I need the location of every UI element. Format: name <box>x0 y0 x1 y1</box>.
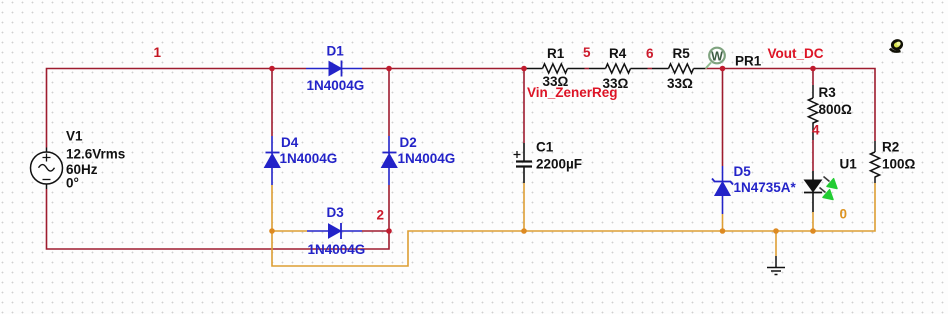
svg-text:1N4735A*: 1N4735A* <box>734 180 797 195</box>
svg-text:U1: U1 <box>840 157 858 172</box>
svg-text:D2: D2 <box>400 135 417 150</box>
wire node 6 stub <box>648 68 653 70</box>
capacitor C1 <box>514 143 533 183</box>
svg-text:4: 4 <box>812 123 820 138</box>
C1 labels <box>536 140 582 172</box>
svg-text:1: 1 <box>154 45 162 60</box>
cursor icon top right <box>890 39 903 51</box>
zener diode D5 <box>712 166 733 214</box>
U1 label <box>840 157 858 172</box>
svg-text:D3: D3 <box>327 205 345 220</box>
wire net 0 D3 anode segment <box>272 230 307 232</box>
D3 labels <box>308 205 366 257</box>
svg-text:PR1: PR1 <box>735 54 762 69</box>
D2 labels <box>398 135 456 166</box>
junction Vin_ZenerReg <box>521 66 527 72</box>
svg-text:5: 5 <box>583 45 591 60</box>
resistor R3 <box>808 85 817 140</box>
svg-text:100Ω: 100Ω <box>882 157 916 172</box>
svg-text:2: 2 <box>377 208 385 223</box>
svg-text:1N4004G: 1N4004G <box>398 151 456 166</box>
svg-text:R4: R4 <box>609 46 627 61</box>
svg-text:2200µF: 2200µF <box>536 157 582 172</box>
U1 emission arrow upper <box>824 177 838 189</box>
R1 labels <box>543 46 569 89</box>
wire net 4 R3 to U1 <box>812 140 814 171</box>
wire net 1 D1 cathode to C1 junction <box>362 68 525 70</box>
wire node 5 stub <box>585 68 590 70</box>
svg-text:Vin_ZenerReg: Vin_ZenerReg <box>527 85 618 100</box>
junction node 0 at D4 <box>269 228 275 234</box>
svg-text:R5: R5 <box>673 46 691 61</box>
svg-text:12.6Vrms: 12.6Vrms <box>66 147 125 162</box>
wire C1 top branch <box>523 69 525 144</box>
junction node 2 <box>386 228 392 234</box>
svg-text:D4: D4 <box>281 135 299 150</box>
svg-text:Vout_DC: Vout_DC <box>768 46 824 61</box>
wire net 0 D5 bottom <box>722 214 724 231</box>
junction node 0 at D5 <box>720 228 726 234</box>
wire D2 top branch <box>388 69 390 137</box>
resistor R2 <box>870 141 879 183</box>
junction node 1 right <box>386 66 392 72</box>
svg-text:0°: 0° <box>66 176 79 191</box>
svg-text:1N4004G: 1N4004G <box>308 242 366 257</box>
svg-text:D1: D1 <box>327 44 345 59</box>
wire D4 top branch <box>271 69 273 137</box>
wire net 0 D4 bottom to ground bus with jog <box>272 183 875 266</box>
resistor R4 <box>589 64 648 73</box>
R3 labels <box>819 85 853 117</box>
D4 labels <box>280 135 338 166</box>
svg-text:6: 6 <box>646 46 654 61</box>
svg-text:V1: V1 <box>66 129 83 144</box>
svg-text:C1: C1 <box>536 140 554 155</box>
junction node 1 left <box>269 66 275 72</box>
R5 labels <box>667 46 693 91</box>
R2 labels <box>882 140 916 172</box>
svg-text:0: 0 <box>840 207 848 222</box>
D1 labels <box>307 44 365 94</box>
diode D1 <box>306 61 362 77</box>
wire net 2 D3 cathode segment <box>362 230 389 232</box>
svg-text:1N4004G: 1N4004G <box>307 78 365 93</box>
diode D4 <box>265 136 281 185</box>
wire net Vout right run to R2 corner <box>705 69 875 142</box>
diode D2 <box>382 136 398 185</box>
resistor R1 <box>525 64 585 73</box>
ground <box>767 256 785 275</box>
svg-text:R2: R2 <box>882 140 899 155</box>
D5 labels <box>734 164 797 195</box>
junction Vout_DC left <box>720 66 726 72</box>
svg-text:33Ω: 33Ω <box>667 76 693 91</box>
V1 labels <box>66 129 125 191</box>
wire D5 top branch <box>722 69 724 167</box>
wire net 0 U1 bottom <box>812 212 814 231</box>
wire net 0 ground stub <box>775 231 777 256</box>
wire top net 1 from V1 to D1 anode <box>47 69 307 148</box>
diode D3 <box>307 223 362 239</box>
U1 emission arrow lower <box>820 188 834 200</box>
LED U1 <box>804 171 822 212</box>
svg-text:800Ω: 800Ω <box>819 102 853 117</box>
junction node 0 at C1 <box>521 228 527 234</box>
R4 labels <box>603 46 629 91</box>
svg-text:R1: R1 <box>547 46 565 61</box>
wire net 0 C1 bottom <box>523 183 525 231</box>
svg-text:D5: D5 <box>734 164 752 179</box>
wire R3 top branch <box>812 69 814 86</box>
svg-text:W: W <box>711 49 723 63</box>
junction node 0 at U1 <box>810 228 816 234</box>
svg-text:1N4004G: 1N4004G <box>280 151 338 166</box>
svg-text:R3: R3 <box>819 85 837 100</box>
junction node 0 at ground <box>773 228 779 234</box>
source V1 <box>31 148 63 190</box>
probe PR1 <box>706 48 725 69</box>
junction Vout_DC R3 <box>810 66 816 72</box>
wire net 2 D2 bottom to V1 return <box>47 185 390 249</box>
resistor R5 <box>652 64 705 73</box>
